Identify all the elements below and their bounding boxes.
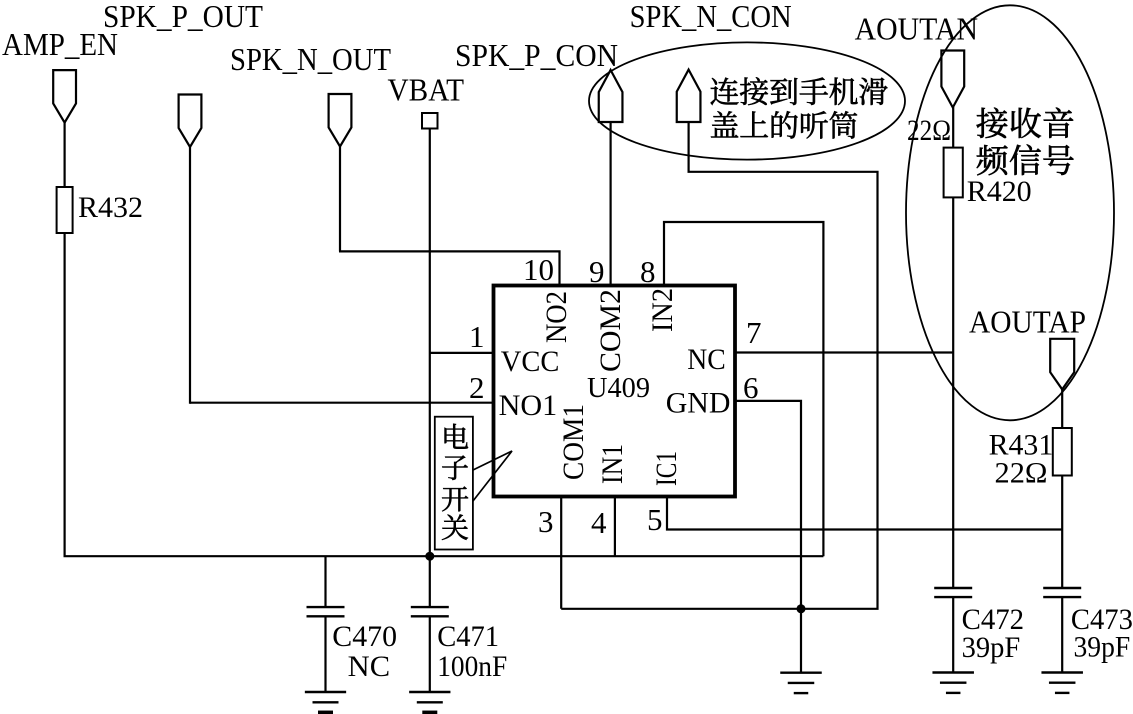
wire SPK_N_OUT to pin 10 [339, 251, 560, 285]
svg-text:6: 6 [743, 370, 759, 405]
callout lines to IC [473, 451, 512, 501]
svg-text:AOUTAP: AOUTAP [969, 303, 1086, 339]
svg-text:AMP_EN: AMP_EN [2, 26, 118, 62]
capacitor C470 [307, 606, 345, 608]
ellipse annotation earpiece [589, 42, 905, 159]
wire pin 9 COM2 lead [609, 122, 611, 286]
svg-text:C471: C471 [437, 620, 499, 653]
ground C471 [409, 691, 450, 693]
svg-text:VCC: VCC [501, 345, 560, 378]
svg-text:2: 2 [469, 370, 485, 405]
svg-text:100nF: 100nF [437, 650, 507, 683]
ground C473 [1041, 671, 1083, 673]
wire R431 down to C473 [1061, 476, 1063, 589]
connector SPK_N_OUT [329, 94, 352, 147]
connector AOUTAP [1050, 339, 1074, 390]
note line2 earpiece [711, 111, 738, 137]
svg-text:3: 3 [538, 504, 554, 539]
wire VBAT down to bus [429, 128, 431, 556]
note receive-audio line1 [977, 108, 1008, 138]
svg-text:7: 7 [746, 315, 762, 350]
op-amp U409 IC body [494, 286, 736, 497]
ground C472 [932, 671, 974, 673]
wire R432 to bus [63, 233, 65, 556]
resistor R420 [944, 148, 963, 198]
svg-text:NO1: NO1 [499, 389, 558, 422]
resistor R432 [57, 187, 73, 233]
svg-text:GND: GND [666, 387, 731, 420]
wire pin 4 IN1 to bus [614, 497, 616, 557]
svg-text:NO2: NO2 [540, 291, 573, 343]
note receive-audio line2 [977, 145, 1008, 175]
wire C473 to ground [1061, 597, 1063, 672]
svg-text:9: 9 [589, 254, 605, 289]
svg-text:C470: C470 [332, 620, 397, 653]
junction dot ground net [797, 604, 806, 613]
svg-text:10: 10 [523, 252, 554, 287]
svg-text:SPK_P_CON: SPK_P_CON [455, 37, 618, 73]
svg-text:U409: U409 [587, 372, 650, 404]
note line1 connect-to-phone-slider [711, 78, 739, 105]
wire SPK_P_OUT down [189, 147, 191, 404]
svg-text:NC: NC [687, 343, 726, 376]
capacitor C473 [1043, 587, 1081, 589]
wire AMP_EN to R432 [63, 122, 65, 187]
svg-text:SPK_N_OUT: SPK_N_OUT [230, 41, 391, 77]
capacitor C472 [934, 587, 972, 589]
wire R420 down to C472 [952, 197, 954, 588]
wire C471 to ground [429, 616, 431, 692]
svg-text:4: 4 [591, 505, 607, 540]
VBAT pad [422, 113, 438, 129]
svg-text:AOUTAN: AOUTAN [855, 11, 978, 47]
svg-text:IC1: IC1 [650, 451, 683, 486]
wire pin 3 COM1 lead [560, 497, 562, 609]
wire AOUTAN to R420 [952, 107, 954, 148]
resistor R431 [1053, 428, 1072, 476]
wire bus to C471 [429, 556, 431, 607]
wire pin 5 IC1 to R431 net [667, 497, 1062, 530]
wire SPK_N_CON down right down [561, 122, 877, 609]
connector SPK_P_CON [599, 70, 623, 122]
connector AMP_EN [53, 70, 76, 123]
svg-text:R432: R432 [78, 191, 143, 224]
wire pin 6 GND to ground [735, 401, 801, 673]
svg-text:39pF: 39pF [1074, 631, 1131, 664]
connector AOUTAN [941, 51, 964, 108]
ground C470 [305, 691, 346, 693]
wire to pin 2 NO1 [190, 402, 494, 404]
junction dot VBAT/bus [425, 552, 434, 561]
svg-text:COM1: COM1 [557, 404, 590, 480]
wire pin 1 VCC lead [430, 352, 494, 354]
wire AOUTAP to R431 [1061, 389, 1063, 429]
connector SPK_N_CON [677, 70, 701, 122]
connector SPK_P_OUT [179, 95, 202, 148]
wire C472 to ground [952, 597, 954, 672]
capacitor C471 [411, 606, 449, 608]
wire pin 8 IN2 to bus [664, 222, 823, 556]
svg-text:8: 8 [640, 254, 656, 289]
wire C470 to ground [324, 616, 326, 692]
ellipse annotation audio receive [906, 5, 1114, 420]
svg-text:NC: NC [348, 650, 390, 683]
svg-text:VBAT: VBAT [388, 72, 465, 108]
svg-text:R420: R420 [967, 175, 1032, 208]
annotation box 电子开关 [435, 417, 473, 550]
wire pin 7 NC lead [735, 351, 953, 353]
svg-text:COM2: COM2 [594, 289, 627, 372]
svg-text:SPK_P_OUT: SPK_P_OUT [103, 0, 263, 34]
svg-text:1: 1 [469, 319, 485, 354]
svg-text:39pF: 39pF [962, 631, 1021, 664]
svg-text:IN2: IN2 [646, 288, 679, 332]
wire main bus (VBAT net) [64, 555, 824, 557]
wire SPK_N_OUT down [339, 146, 341, 251]
ground center [780, 672, 822, 674]
wire bus to C470 [324, 556, 326, 607]
note electronic switch 电子开关 vertical [445, 424, 469, 449]
svg-text:22Ω: 22Ω [907, 114, 951, 147]
svg-text:5: 5 [647, 502, 663, 537]
svg-text:22Ω: 22Ω [995, 457, 1048, 490]
svg-text:SPK_N_CON: SPK_N_CON [630, 0, 792, 34]
svg-text:IN1: IN1 [596, 444, 629, 484]
